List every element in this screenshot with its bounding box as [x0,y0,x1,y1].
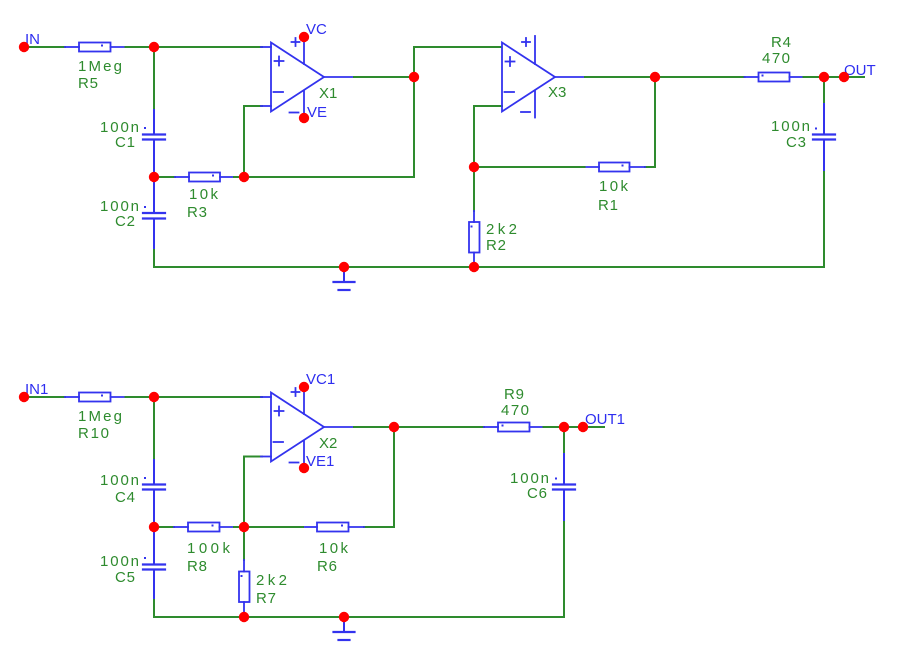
capacitor C5 [143,527,165,600]
junction node D (414,77) [409,72,419,82]
resistor R2 [469,211,480,267]
wire junction J down to R7 [243,527,245,560]
op-amp X3 [502,36,585,118]
wire junction L to OUT1 [564,426,604,428]
svg-text:10k: 10k [599,178,629,195]
svg-text:100n: 100n [771,118,810,135]
wire junction A down to C1 [153,47,155,112]
junction node H (154,397) [149,392,159,402]
wire junction H down to C4 [153,397,155,462]
wire top ground rail [154,266,824,268]
node VC1 (X2 positive supply) [299,382,309,392]
resistor R9 [484,423,544,432]
wire R8 to junction J [234,526,244,528]
node IN1 [19,392,29,402]
svg-text:R4: R4 [771,34,791,51]
capacitor C2 [143,177,165,250]
svg-text:R7: R7 [256,590,276,607]
junction node C (244,177) [239,172,249,182]
svg-text:R8: R8 [187,558,207,575]
svg-text:OUT1: OUT1 [585,411,625,428]
svg-text:100k: 100k [187,540,231,557]
junction node K (394,427) [389,422,399,432]
junction node L (564,427) [559,422,569,432]
svg-text:R3: R3 [187,204,207,221]
resistor R10 [65,393,126,402]
svg-text:VE1: VE1 [306,453,334,470]
svg-text:C4: C4 [115,489,135,506]
svg-text:100n: 100n [100,472,139,489]
wire junction E down to R2 [473,167,475,211]
node VE (X1 negative supply) [299,113,309,123]
wire C2 to ground rail [153,250,155,267]
junction node I (154,527) [149,522,159,532]
node VE1 (X2 negative supply) [299,463,309,473]
wire R9 to junction L [544,426,565,428]
wire R1 to junction E [474,166,585,168]
capacitor C1 [143,110,165,177]
svg-text:2k2: 2k2 [486,221,517,238]
wire junction B to R3 [154,176,175,178]
svg-text:C6: C6 [527,485,547,502]
capacitor C6 [553,454,575,522]
wire IN to R5 [24,46,65,48]
junction ground tap (344,267) [339,262,349,272]
svg-text:X3: X3 [548,84,566,101]
wire R5 to junction [126,46,155,48]
wire X3 output to junction F [585,76,655,78]
svg-text:10k: 10k [189,186,219,203]
svg-text:R6: R6 [317,558,337,575]
wire C5 to ground rail [153,600,155,617]
junction node J (244,527) [239,522,249,532]
svg-text:VE: VE [307,104,327,121]
junction ground tap (344,617) [339,612,349,622]
wire C3 to ground rail [823,172,825,267]
wire junction K to R9 [394,426,484,428]
wire junction G to OUT [824,76,864,78]
svg-text:C2: C2 [115,213,135,230]
wire X2 output to junction K [354,426,394,428]
svg-text:10k: 10k [319,540,349,557]
junction node B (154,177) [149,172,159,182]
node OUT1 [578,422,588,432]
wire feedback junction C to X1 output node and X3 + input [244,47,501,177]
wire junction A to X1 + input [154,46,262,48]
wire junction H to X2 + input [154,396,262,398]
resistor R8 [174,523,234,532]
op-amp X2 [261,383,354,470]
svg-text:R2: R2 [486,237,506,254]
svg-text:470: 470 [762,50,790,67]
op-amp X1 [261,33,354,120]
junction node A (154,47) [149,42,159,52]
svg-text:C1: C1 [115,134,135,151]
resistor R7 [239,560,250,617]
capacitor C3 [813,104,835,172]
wire C6 to ground rail [563,522,565,617]
junction node E (474,167) [469,162,479,172]
wire X3 inverting input to junction E [474,106,502,167]
junction R7 to ground rail (244,617) [239,612,249,622]
wire junction I to R8 [154,526,174,528]
wire junction F down to R1 [645,77,655,167]
svg-text:VC1: VC1 [306,371,335,388]
svg-text:1Meg: 1Meg [78,58,122,75]
ground (top circuit) [334,267,355,290]
wire R10 to junction H [126,396,155,398]
svg-text:C5: C5 [115,569,135,586]
svg-text:100n: 100n [100,553,139,570]
svg-text:470: 470 [501,402,529,419]
wire junction K down to R6 [364,427,394,527]
resistor R5 [65,43,126,52]
wire IN1 to R10 [24,396,65,398]
svg-text:R1: R1 [598,197,618,214]
svg-text:X1: X1 [319,85,337,102]
svg-text:R10: R10 [78,425,109,442]
wire X2 inverting input to junction J [244,457,262,528]
wire R4 to junction G [804,76,825,78]
junction node F (655,77) [650,72,660,82]
svg-text:2k2: 2k2 [256,572,287,589]
svg-text:R9: R9 [504,386,524,403]
svg-text:X2: X2 [319,435,337,452]
capacitor C4 [143,460,165,527]
junction R2 to ground rail (474,267) [469,262,479,272]
wire junction G down to C3 [823,77,825,106]
svg-text:VC: VC [306,21,327,38]
resistor R6 [303,523,364,532]
junction node G (824,77) [819,72,829,82]
wire R3 to junction C [234,176,244,178]
svg-text:C3: C3 [786,134,806,151]
wire junction L down to C6 [563,427,565,456]
svg-text:1Meg: 1Meg [78,408,122,425]
resistor R1 [585,163,646,172]
node OUT [839,72,849,82]
wire R6 to junction J [244,526,303,528]
resistor R4 [745,73,804,82]
wire bottom ground rail [154,616,564,618]
node VC (X1 positive supply) [299,32,309,42]
wire X1 output to junction D [354,76,414,78]
node IN [19,42,29,52]
svg-text:R5: R5 [78,75,98,92]
resistor R3 [175,173,234,182]
wire X1 inverting input to junction C [244,106,262,177]
ground (bottom circuit) [334,617,355,640]
wire junction F to R4 [655,76,745,78]
